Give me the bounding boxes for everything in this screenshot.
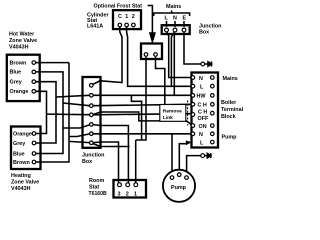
svg-text:Terminal: Terminal <box>221 107 244 113</box>
svg-text:Optional Frost Stat: Optional Frost Stat <box>94 4 143 10</box>
svg-text:L641A: L641A <box>87 24 103 30</box>
svg-text:N: N <box>199 132 203 138</box>
svg-text:Pump: Pump <box>171 185 187 191</box>
svg-text:Remove: Remove <box>163 109 182 115</box>
svg-text:Blue: Blue <box>13 152 25 158</box>
svg-text:1: 1 <box>134 192 137 198</box>
svg-text:N: N <box>173 16 177 22</box>
svg-text:Hot Water: Hot Water <box>9 32 35 38</box>
svg-text:Grey: Grey <box>13 141 25 147</box>
svg-text:Mains: Mains <box>166 4 181 10</box>
svg-text:HW: HW <box>197 94 207 100</box>
svg-text:C H: C H <box>198 102 207 108</box>
svg-text:Box: Box <box>199 30 209 36</box>
svg-text:Orange: Orange <box>13 132 32 138</box>
svg-text:C: C <box>118 14 122 20</box>
svg-text:Orange: Orange <box>10 89 29 95</box>
svg-text:Zone Valve: Zone Valve <box>11 180 39 186</box>
svg-text:Zone Valve: Zone Valve <box>9 38 37 44</box>
svg-text:2: 2 <box>132 14 135 20</box>
svg-text:V4043H: V4043H <box>11 186 31 192</box>
svg-text:N: N <box>199 76 203 82</box>
svg-text:2: 2 <box>126 192 129 198</box>
svg-text:3: 3 <box>118 192 121 198</box>
svg-text:C H: C H <box>198 110 207 116</box>
svg-text:T6160B: T6160B <box>89 191 107 197</box>
svg-text:Blue: Blue <box>10 70 22 76</box>
svg-text:Junction: Junction <box>82 153 104 159</box>
svg-text:Room: Room <box>89 178 104 184</box>
svg-text:Block: Block <box>221 114 236 120</box>
svg-text:Grey: Grey <box>10 80 22 86</box>
svg-text:Boiler: Boiler <box>221 100 237 106</box>
svg-text:Box: Box <box>82 159 92 165</box>
svg-text:OFF: OFF <box>198 116 209 122</box>
svg-text:ON: ON <box>199 124 207 130</box>
svg-text:Brown: Brown <box>13 160 30 166</box>
svg-text:Pump: Pump <box>222 135 238 141</box>
svg-text:Mains: Mains <box>223 76 238 82</box>
svg-text:Brown: Brown <box>10 60 27 66</box>
svg-text:E: E <box>183 16 187 22</box>
svg-text:Heating: Heating <box>11 173 31 179</box>
svg-text:Link: Link <box>163 115 173 121</box>
svg-text:V4043H: V4043H <box>9 45 29 51</box>
svg-text:Stat: Stat <box>89 185 99 191</box>
svg-text:1: 1 <box>125 14 128 20</box>
